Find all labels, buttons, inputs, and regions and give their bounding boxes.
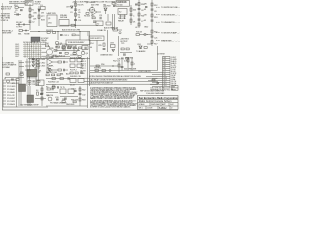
svg-text:TO ALARM: TO ALARM xyxy=(136,50,146,53)
wire bottom bus xyxy=(17,106,49,108)
op-amp U1 xyxy=(91,7,101,15)
capacitor C12 xyxy=(60,35,70,38)
cluster top mid-right xyxy=(107,3,115,8)
relay K2 xyxy=(118,9,127,20)
svg-text:RELAY: RELAY xyxy=(118,19,125,22)
svg-text:5 E: 5 E xyxy=(164,65,166,67)
svg-text:P2-3 AUD: P2-3 AUD xyxy=(7,88,16,91)
rev box xyxy=(172,86,179,91)
hatched block A xyxy=(19,84,26,92)
cluster far right mid xyxy=(136,32,148,36)
label right chain values xyxy=(133,10,137,24)
resistor R6 xyxy=(84,13,91,18)
title block xyxy=(138,96,179,110)
bus vertical right of center xyxy=(88,57,90,108)
svg-text:R31 R32 C17 C18: R31 R32 C17 C18 xyxy=(62,45,78,47)
wire right vertical to keyer xyxy=(89,32,91,58)
fuse F2 xyxy=(113,26,122,33)
bottom-left connector box xyxy=(3,80,17,107)
bus vertical pair 2 xyxy=(35,59,37,87)
svg-text:TO MONITOR AMP — ·—: TO MONITOR AMP — ·— xyxy=(161,32,180,35)
svg-text:ADJ: ADJ xyxy=(66,73,70,76)
svg-text:DWN JHM: DWN JHM xyxy=(151,104,160,106)
svg-text:10 L: 10 L xyxy=(164,75,167,77)
connector P1 hatched xyxy=(27,70,41,79)
resistor R26 xyxy=(72,34,80,37)
cluster mid-center components xyxy=(55,44,88,57)
stepper text xyxy=(18,34,30,36)
right vertical chain 1 xyxy=(138,0,146,28)
svg-text:TO XMTR KEY LINE — · —·: TO XMTR KEY LINE — · —· xyxy=(161,7,180,9)
diode row A xyxy=(32,59,46,62)
svg-text:GND: GND xyxy=(144,27,149,29)
svg-text:R52 C25: R52 C25 xyxy=(113,61,121,63)
hatched block B xyxy=(27,95,34,103)
label cluster under K2 xyxy=(118,18,126,22)
text low left xyxy=(2,62,17,69)
diode CR7 xyxy=(66,6,73,9)
table numbers column xyxy=(164,56,168,87)
svg-text:R46 R47 R48: R46 R47 R48 xyxy=(46,72,58,74)
resistor row osc xyxy=(62,45,82,48)
cluster low mid extra row xyxy=(46,72,60,76)
label under tone keyer xyxy=(55,47,67,52)
capacitor C3 xyxy=(74,9,81,12)
wire horizontal mid-top xyxy=(60,24,98,26)
cluster rectifier xyxy=(103,6,108,14)
resistor R3 xyxy=(38,15,40,18)
border bottom xyxy=(2,109,178,111)
diode CR1 xyxy=(38,9,40,11)
svg-text:S2 REAR: S2 REAR xyxy=(2,66,10,69)
svg-text:GND BUS: GND BUS xyxy=(66,104,75,106)
cluster ps parts xyxy=(103,43,115,52)
resistor ladder center xyxy=(70,53,82,60)
wire vertical pair center xyxy=(114,14,116,30)
connector pin labels xyxy=(171,57,177,87)
capacitor C24 xyxy=(74,20,82,23)
svg-text:C36, CR8, K4, Q6: C36, CR8, K4, Q6 xyxy=(150,88,165,90)
capacitor C35 xyxy=(58,86,59,88)
box power supply xyxy=(89,36,104,40)
wire vertical ps3 xyxy=(118,36,120,56)
svg-text:FL1 FL2: FL1 FL2 xyxy=(70,70,78,72)
resistor R36 xyxy=(20,72,24,75)
svg-text:U4 AMPL: U4 AMPL xyxy=(46,64,55,67)
wire long to TB lower 3 xyxy=(84,83,158,85)
border left xyxy=(2,3,4,57)
diode CR9 xyxy=(48,69,51,71)
svg-text:R4 47K: R4 47K xyxy=(78,5,85,7)
cluster lower center xyxy=(96,14,114,30)
box filter low xyxy=(70,79,84,87)
bus verticals bottom-left xyxy=(19,60,30,106)
svg-text:J2 TERM: J2 TERM xyxy=(157,54,165,56)
jack J1 xyxy=(45,46,53,60)
bus ticks top xyxy=(30,58,44,60)
right chain 2 lower section xyxy=(147,28,158,46)
svg-text:TO LINE AMP IN — · —·: TO LINE AMP IN — · —· xyxy=(161,21,180,24)
junction dots on bus xyxy=(38,31,80,32)
cluster bottom center 2 xyxy=(60,87,78,99)
label between chains xyxy=(135,27,149,30)
wire vertical ps1 xyxy=(107,30,109,52)
svg-text:PWR SUPPLY: PWR SUPPLY xyxy=(90,38,103,40)
vertical chain bottom mid xyxy=(41,86,44,106)
svg-text:OHM: OHM xyxy=(52,55,57,57)
cluster below connector xyxy=(28,80,40,86)
svg-text:DIODE MATRIX CR10-CR30: DIODE MATRIX CR10-CR30 xyxy=(23,41,47,44)
notes paragraph 2 xyxy=(90,100,139,109)
svg-text:WAFER CONTACT GROUNDS ONE MATR: WAFER CONTACT GROUNDS ONE MATRIX ROW INP… xyxy=(90,97,133,100)
label ps internals xyxy=(90,43,103,49)
wire bottom center xyxy=(46,105,88,107)
wire to K1 xyxy=(9,2,25,4)
note text left xyxy=(1,7,13,11)
connector stub wires xyxy=(146,73,163,87)
op-amp U3 xyxy=(46,56,68,65)
label mid gap xyxy=(60,73,70,76)
svg-text:R24 R25: R24 R25 xyxy=(46,30,54,32)
svg-text:P2-6 MUT: P2-6 MUT xyxy=(7,98,16,100)
resistor R1 xyxy=(29,8,31,11)
matrix row labels xyxy=(15,44,20,58)
junction dot xyxy=(75,25,76,26)
connector box labels xyxy=(7,83,16,106)
cluster far right mid 2 xyxy=(136,44,147,53)
svg-text:1. ALL RELAY CONTACTS SHOWN DE: 1. ALL RELAY CONTACTS SHOWN DE-ENERGIZED xyxy=(89,79,128,82)
svg-text:TB2 TERMINAL STRIP: TB2 TERMINAL STRIP xyxy=(20,104,39,107)
right vertical chain 2 xyxy=(151,0,159,28)
svg-text:1,500,000 OHMS MAX: 1,500,000 OHMS MAX xyxy=(146,92,165,95)
label chain mid xyxy=(70,12,81,19)
svg-text:13 P: 13 P xyxy=(164,81,167,83)
capacitor C5 xyxy=(130,14,133,15)
capacitor C1 xyxy=(14,12,21,16)
svg-text:TO PTT: TO PTT xyxy=(16,27,23,29)
wire long to TB lower 1 xyxy=(84,77,158,79)
svg-text:R50 R51: R50 R51 xyxy=(94,68,102,70)
svg-text:P2-8 ALM: P2-8 ALM xyxy=(7,103,15,106)
svg-text:REF DESIG LAST USED R68: REF DESIG LAST USED R68 xyxy=(140,89,165,92)
cluster left of circle xyxy=(45,43,49,47)
box F1 xyxy=(41,6,46,9)
svg-text:TO S2B: TO S2B xyxy=(31,60,38,62)
svg-text:TO RCVR MUTE — · — ·—: TO RCVR MUTE — · — ·— xyxy=(161,15,180,17)
cluster low center bottom xyxy=(46,77,84,84)
capacitor C13 top right xyxy=(135,4,147,8)
transistor Q5 xyxy=(47,95,52,101)
cluster below xyxy=(120,48,132,55)
box bus xyxy=(66,40,90,44)
cluster right chains low xyxy=(124,57,136,71)
svg-text:LAMP DRV: LAMP DRV xyxy=(47,12,57,15)
diode matrix grid xyxy=(23,43,42,58)
resistor R7 xyxy=(71,24,75,26)
sheet background xyxy=(0,0,180,114)
svg-text:R44 R45 C22: R44 R45 C22 xyxy=(48,82,60,84)
text cluster right of ps xyxy=(120,39,129,46)
svg-text:Radio Control Console Schem: Radio Control Console Schem xyxy=(139,100,172,103)
label cluster right of chain xyxy=(33,13,46,22)
resistor row mid-center xyxy=(46,30,56,34)
off page label 1 xyxy=(156,7,184,9)
svg-text:R6 10K: R6 10K xyxy=(84,16,91,18)
notes paragraph 1 xyxy=(90,86,139,100)
box lamp driver xyxy=(47,12,58,27)
svg-text:R54 R55: R54 R55 xyxy=(126,58,134,60)
transistor Q4 xyxy=(81,51,89,55)
cluster bottom center 1 xyxy=(46,88,58,97)
svg-text:San Bernardino Radio Corporati: San Bernardino Radio Corporation xyxy=(139,97,179,100)
label column right of filters xyxy=(81,59,87,75)
cluster lower left top xyxy=(16,22,30,29)
svg-text:CHASSIS GND: CHASSIS GND xyxy=(100,54,113,57)
bus vertical pair 1 xyxy=(26,59,28,87)
svg-text:F2 3A: F2 3A xyxy=(113,26,119,29)
bus horizontal low-left xyxy=(28,58,90,60)
switch S2 xyxy=(59,20,69,27)
svg-text:2W: 2W xyxy=(41,13,44,15)
svg-text:TONE KEYER ASSY: TONE KEYER ASSY xyxy=(68,41,86,44)
svg-text:CODE: CODE xyxy=(147,108,153,110)
svg-text:R66 22K: R66 22K xyxy=(71,99,79,101)
svg-text:8. REFER TO DWG 5-25011 FOR IN: 8. REFER TO DWG 5-25011 FOR INTERUNIT CA… xyxy=(90,106,131,109)
wire long to TB lower 2 xyxy=(84,81,158,83)
svg-text:C10 R23 U2: C10 R23 U2 xyxy=(55,56,66,58)
wire vertical second xyxy=(38,6,40,26)
resistor R57 xyxy=(52,85,56,88)
cluster bottom mid-left xyxy=(35,80,46,99)
long wire pair to connector xyxy=(90,70,158,72)
svg-text:B: B xyxy=(172,89,173,91)
svg-text:GND: GND xyxy=(81,73,86,75)
svg-text:SEE SHEET 2 FOR WIRING: SEE SHEET 2 FOR WIRING xyxy=(9,1,33,3)
text block station xyxy=(60,14,68,19)
resistor R4 xyxy=(75,3,77,6)
svg-text:AUDIO OUT: AUDIO OUT xyxy=(1,8,12,11)
svg-text:OSC: OSC xyxy=(55,47,60,49)
svg-text:5-25012: 5-25012 xyxy=(159,108,167,110)
notes heading xyxy=(89,75,146,84)
svg-text:6 F: 6 F xyxy=(164,67,166,69)
resistor R66 xyxy=(71,99,79,102)
svg-text:2 B: 2 B xyxy=(164,59,166,61)
svg-text:STRIP J4: STRIP J4 xyxy=(1,20,10,22)
cluster bottom center 3 xyxy=(79,86,87,106)
svg-text:HOME: HOME xyxy=(24,34,30,36)
box header right xyxy=(116,1,130,7)
svg-text:GRN WIRE: GRN WIRE xyxy=(2,33,12,35)
note text left lower xyxy=(1,14,11,22)
op-amp U4 xyxy=(46,64,68,73)
wire branch mid xyxy=(90,64,118,67)
wire vertical chain right-center xyxy=(130,5,132,25)
components on long wire xyxy=(94,68,137,72)
svg-text:600 OHM LINE: 600 OHM LINE xyxy=(124,69,137,71)
relay K3 xyxy=(31,37,49,42)
label column between chains xyxy=(144,4,148,23)
wire vertical main left xyxy=(29,4,31,30)
cluster low left comps xyxy=(5,73,24,85)
text mid left xyxy=(2,31,14,35)
diode row B xyxy=(32,62,46,65)
wire vertical ps2 xyxy=(96,40,98,52)
off page label 4 xyxy=(156,32,182,35)
svg-text:P/O MAIN CHASSIS: P/O MAIN CHASSIS xyxy=(50,102,67,105)
svg-text:SW S2A: SW S2A xyxy=(60,16,68,19)
cluster dense center-low xyxy=(70,59,83,79)
svg-text:8 J: 8 J xyxy=(164,71,166,73)
capacitor C9 xyxy=(15,10,23,12)
capacitor C33 xyxy=(55,97,59,100)
capacitor C34 xyxy=(71,89,77,92)
cluster near table xyxy=(152,79,159,83)
cluster under J1 xyxy=(50,48,59,59)
svg-text:P2-5 +28: P2-5 +28 xyxy=(7,95,15,97)
resistor R64 xyxy=(62,99,66,102)
svg-text:R27 R28 R29: R27 R28 R29 xyxy=(70,58,82,60)
capacitor C4 xyxy=(93,21,96,22)
label right of bus xyxy=(31,60,42,73)
off page label 5 xyxy=(156,40,180,43)
label right of K1 xyxy=(35,0,42,5)
bus tap marks left xyxy=(25,62,40,70)
capacitor C26 xyxy=(117,57,129,60)
cluster potentiometer xyxy=(19,30,29,32)
wire vertical right boundary xyxy=(157,46,159,71)
off page label 2 xyxy=(156,15,183,17)
svg-text:P2-1 KEY: P2-1 KEY xyxy=(7,83,16,85)
svg-text:SPARE PAIR — · — ·—: SPARE PAIR — · — ·— xyxy=(161,40,180,43)
capacitor C2 xyxy=(29,21,36,24)
transistor Q3 xyxy=(55,41,63,45)
svg-text:NOTES: UNLESS OTHERWISE SPECIF: NOTES: UNLESS OTHERWISE SPECIFIED ALL RE… xyxy=(89,75,146,78)
svg-text:P2-2 GND: P2-2 GND xyxy=(7,86,16,88)
label row under header xyxy=(91,5,107,7)
wire relay to matrix xyxy=(32,41,37,43)
label osc bottom xyxy=(46,55,57,57)
wire vertical center-top xyxy=(75,0,77,28)
resistor R14 xyxy=(14,5,24,8)
svg-text:CONT LINE PR: CONT LINE PR xyxy=(138,71,151,73)
svg-text:SCALE: SCALE xyxy=(139,103,146,106)
label aux row xyxy=(46,86,57,89)
cluster mid-right drops xyxy=(113,60,123,73)
resistor R8 xyxy=(130,8,132,11)
wire drop center xyxy=(107,14,109,21)
capacitor C11 xyxy=(99,15,103,19)
matrix right marks xyxy=(42,44,47,56)
svg-text:P2-7 SPR: P2-7 SPR xyxy=(7,101,16,103)
wire osc bottom xyxy=(46,56,70,58)
svg-text:AUDIO BUS 600 OHM: AUDIO BUS 600 OHM xyxy=(62,29,81,32)
resistor R15 xyxy=(91,15,95,18)
box K1 xyxy=(25,1,33,6)
wire long mid xyxy=(30,31,90,33)
resistor R2 xyxy=(29,15,31,18)
connector J2 table xyxy=(163,57,171,89)
resistor R5 xyxy=(75,13,77,16)
transistor Q2 xyxy=(86,2,96,13)
capacitor pair osc xyxy=(85,47,86,49)
wire taps mid xyxy=(58,32,88,41)
off page label 3 xyxy=(156,21,181,24)
svg-text:115VAC IN: 115VAC IN xyxy=(97,29,106,32)
svg-text:R30 1K: R30 1K xyxy=(136,32,143,34)
diode row C xyxy=(32,65,46,68)
resistor R9 xyxy=(130,19,132,22)
border left lower xyxy=(2,57,4,110)
svg-text:R40 R41 C20: R40 R41 C20 xyxy=(70,76,82,78)
svg-text:P2-4 AUD: P2-4 AUD xyxy=(7,91,16,94)
